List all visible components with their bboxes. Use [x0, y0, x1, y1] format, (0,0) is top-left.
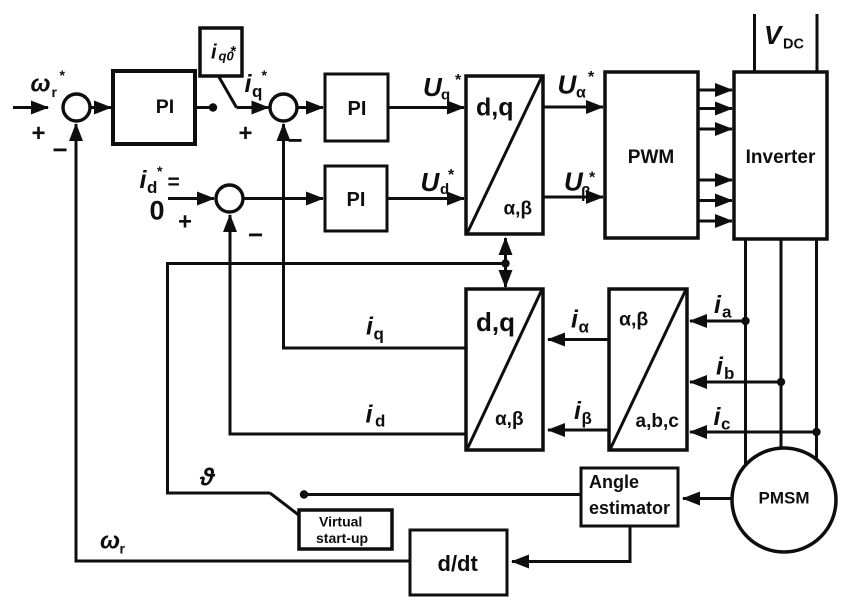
svg-text:+: + [178, 209, 192, 236]
svg-text:*: * [588, 69, 595, 86]
svg-text:−: − [53, 135, 68, 165]
svg-text:U: U [423, 72, 443, 102]
svg-text:d/dt: d/dt [438, 551, 479, 576]
svg-text:r: r [120, 541, 126, 557]
svg-text:*: * [157, 163, 163, 179]
svg-text:d: d [375, 412, 385, 431]
svg-text:β: β [582, 409, 592, 428]
svg-text:α,β: α,β [495, 409, 524, 430]
svg-text:*: * [455, 72, 462, 89]
svg-text:α,β: α,β [619, 309, 648, 331]
svg-text:a: a [722, 303, 732, 322]
svg-text:−: − [288, 125, 303, 155]
svg-text:r: r [52, 84, 58, 100]
svg-text:*: * [60, 67, 66, 83]
svg-text:α: α [579, 318, 590, 337]
svg-text:d,q: d,q [476, 307, 515, 337]
svg-text:α,β: α,β [504, 199, 533, 220]
svg-text:i: i [714, 291, 722, 319]
svg-text:i: i [211, 42, 217, 64]
svg-text:PI: PI [156, 96, 174, 118]
svg-text:*: * [231, 43, 237, 60]
svg-text:0: 0 [150, 196, 165, 226]
svg-text:start-up: start-up [316, 530, 368, 546]
svg-text:U: U [421, 167, 441, 197]
svg-text:b: b [724, 364, 734, 383]
svg-text:c: c [721, 415, 730, 434]
svg-text:α: α [576, 85, 586, 102]
svg-text:q: q [441, 87, 450, 104]
svg-text:*: * [448, 167, 455, 184]
svg-text:DC: DC [783, 37, 804, 53]
svg-text:=: = [168, 171, 180, 194]
svg-text:q: q [374, 325, 384, 344]
svg-text:q: q [252, 82, 262, 101]
svg-text:d,q: d,q [476, 94, 514, 122]
svg-text:PWM: PWM [628, 147, 674, 168]
svg-text:*: * [262, 67, 268, 83]
svg-text:*: * [589, 170, 596, 187]
svg-text:ω: ω [100, 528, 120, 555]
svg-text:estimator: estimator [589, 498, 670, 518]
svg-text:d: d [147, 178, 157, 197]
svg-text:Virtual: Virtual [319, 514, 362, 530]
svg-text:Angle: Angle [589, 472, 639, 492]
svg-text:PI: PI [347, 189, 366, 211]
svg-text:+: + [32, 120, 46, 147]
svg-text:i: i [716, 353, 724, 381]
svg-text:V: V [764, 20, 784, 50]
svg-text:+: + [239, 120, 253, 147]
svg-text:ω: ω [31, 71, 51, 98]
svg-text:PMSM: PMSM [759, 489, 810, 508]
svg-text:β: β [581, 185, 591, 202]
svg-text:ϑ: ϑ [199, 464, 216, 492]
svg-text:Inverter: Inverter [746, 147, 816, 168]
svg-text:−: − [248, 220, 263, 250]
svg-text:U: U [558, 70, 578, 100]
svg-text:i: i [366, 401, 374, 429]
svg-text:PI: PI [348, 98, 367, 120]
svg-text:a,b,c: a,b,c [636, 411, 680, 432]
